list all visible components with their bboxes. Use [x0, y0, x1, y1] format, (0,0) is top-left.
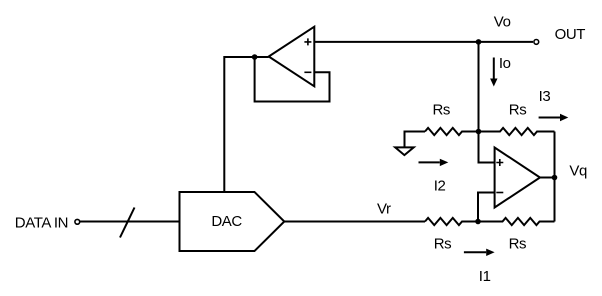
ground — [395, 132, 425, 156]
arrow I1 — [464, 249, 495, 256]
wire R2 down to node Vq — [554, 132, 556, 178]
svg-text:Rs: Rs — [509, 235, 527, 252]
wire U1 feedback (inverting input loop) — [255, 57, 330, 102]
node N2 junction — [475, 219, 481, 225]
svg-text:Rs: Rs — [434, 235, 452, 252]
resistor R4 (Rs bottom-right) — [478, 218, 555, 225]
svg-text:I1: I1 — [479, 268, 491, 285]
svg-text:Vr: Vr — [377, 201, 391, 218]
DATA IN terminal — [75, 219, 80, 224]
DAC U2 — [180, 192, 285, 251]
arrow Io — [490, 58, 497, 87]
node Vo junction — [476, 39, 482, 45]
svg-text:Io: Io — [499, 55, 511, 72]
wire node N2 to U3 inverting input — [478, 193, 495, 222]
wire U1 noninverting input to node Vo — [314, 41, 478, 43]
op-amp U3 (pointing right) — [495, 148, 540, 208]
arrow I3 — [539, 114, 569, 121]
svg-text:DATA IN: DATA IN — [15, 214, 68, 231]
svg-text:Vo: Vo — [494, 13, 511, 30]
op-amp U1 (unity-gain buffer, pointing left) — [269, 27, 315, 87]
resistor R2 (Rs top-right) — [479, 128, 555, 135]
wire node N1 to U3 noninverting input — [479, 132, 495, 163]
arrow I2 — [419, 159, 449, 166]
svg-text:I3: I3 — [539, 88, 551, 105]
svg-text:OUT: OUT — [555, 26, 586, 43]
node N1 junction — [476, 129, 482, 135]
node feedback junction — [252, 54, 258, 60]
wire U3 output to node Vq — [540, 177, 555, 179]
node Vq junction — [552, 175, 558, 181]
svg-text:I2: I2 — [434, 178, 446, 195]
resistor R3 (Rs bottom-left) — [425, 218, 478, 225]
wire node Vq down to R4 — [554, 178, 556, 222]
OUT terminal — [534, 40, 539, 45]
wire DAC output Vr run — [284, 221, 425, 223]
resistor R1 (Rs top-left) — [425, 128, 479, 135]
svg-text:Vq: Vq — [569, 162, 587, 179]
wire node Vo down to node N1 — [478, 42, 480, 132]
wire DATA IN to DAC — [80, 221, 180, 223]
svg-text:Rs: Rs — [509, 102, 527, 119]
wire node Vo to OUT terminal — [479, 41, 534, 43]
wire U1 output to DAC top — [224, 57, 268, 192]
svg-text:Rs: Rs — [433, 102, 451, 119]
svg-text:DAC: DAC — [211, 213, 242, 230]
bus slash on DATA IN wire — [120, 208, 135, 238]
